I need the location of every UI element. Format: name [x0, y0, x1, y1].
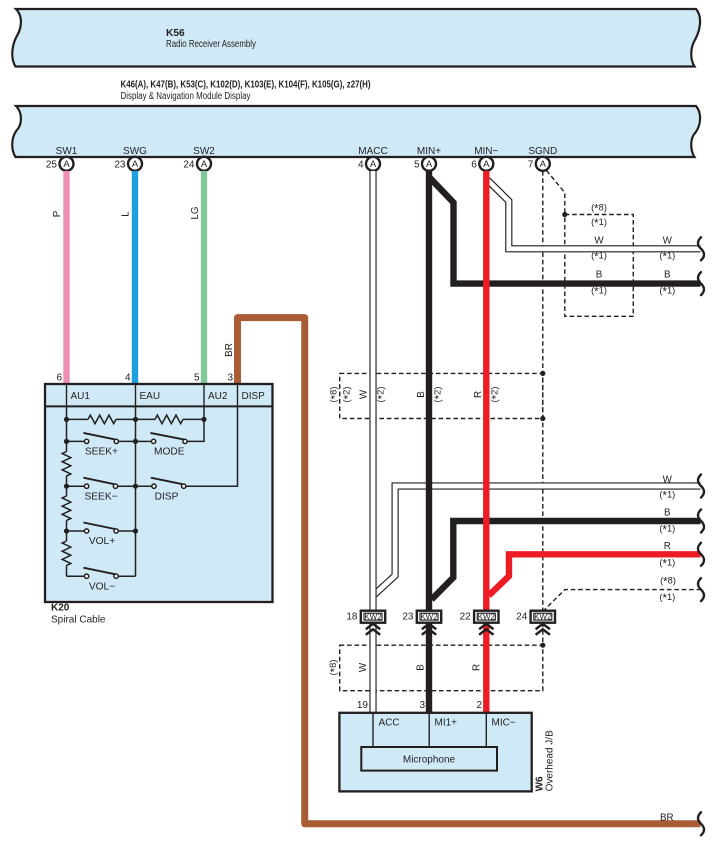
svg-text:DISP: DISP	[155, 491, 179, 502]
wire AU1 internal bus	[66, 406, 68, 576]
svg-text:(*2): (*2)	[376, 387, 389, 403]
junction AU1-SEEK+	[64, 439, 69, 444]
svg-text:24: 24	[516, 612, 528, 623]
svg-text:SEEK−: SEEK−	[84, 491, 117, 502]
svg-text:EAU: EAU	[140, 391, 161, 402]
resistor R5 on AU1 bus	[62, 541, 71, 565]
wire W from connector 18 KW2 to W6 pin 19	[369, 623, 376, 713]
switch SEEK-	[83, 478, 117, 503]
component block K46 Display & Navigation Module Display banner	[12, 106, 700, 157]
svg-text:(*2): (*2)	[490, 387, 503, 403]
page break B lower	[698, 510, 704, 533]
switch DISP	[151, 478, 186, 503]
resistor R4 on AU1 bus	[62, 496, 71, 520]
K20 header divider DISP	[237, 384, 239, 406]
svg-text:VOL−: VOL−	[89, 581, 115, 592]
svg-text:LG: LG	[190, 206, 201, 219]
svg-text:P: P	[52, 210, 63, 217]
svg-text:A: A	[201, 159, 208, 170]
svg-text:3: 3	[227, 373, 233, 384]
svg-text:AU2: AU2	[208, 391, 228, 402]
svg-text:18: 18	[346, 612, 358, 623]
svg-text:4: 4	[358, 159, 364, 170]
wire B option branch lower to right edge	[432, 521, 701, 600]
svg-text:(*1): (*1)	[659, 286, 675, 299]
resistor R2 (EAU-AU2)	[155, 415, 183, 424]
page break dashed option	[698, 578, 704, 601]
wire DISP internal line	[186, 406, 238, 486]
wire B MIN+ from pin 5 to connector 23 KW2	[426, 171, 432, 611]
switch SEEK+	[83, 433, 118, 458]
svg-text:A: A	[426, 159, 433, 170]
switch MODE	[150, 433, 187, 458]
junction dashed middle box top right	[540, 371, 545, 376]
page break W lower	[698, 475, 704, 498]
W6 divider pin 2	[485, 713, 487, 747]
svg-text:24: 24	[183, 159, 195, 170]
svg-text:7: 7	[528, 159, 534, 170]
component Microphone box	[361, 747, 497, 771]
svg-text:KW2: KW2	[364, 612, 382, 621]
junction EAU-VOL+	[133, 528, 138, 533]
svg-text:SGND: SGND	[528, 146, 557, 157]
wire dashed option branch from connector 24 KW2 to right edge	[543, 590, 701, 612]
svg-text:Spiral Cable: Spiral Cable	[51, 615, 106, 626]
pin 5 connector A (MIN+)	[414, 157, 436, 171]
junction AU1-R1	[64, 417, 69, 422]
option box (+8) lower dashed	[340, 645, 543, 691]
svg-text:Microphone: Microphone	[403, 755, 456, 766]
svg-text:BR: BR	[224, 343, 235, 357]
svg-text:(*1): (*1)	[591, 286, 607, 299]
wire DISP row	[136, 485, 152, 487]
svg-text:K20: K20	[51, 603, 70, 614]
svg-text:3: 3	[419, 700, 425, 711]
svg-text:6: 6	[471, 159, 477, 170]
K20 header divider AU2	[203, 384, 205, 406]
W6 divider pin 3	[428, 713, 430, 747]
junction AU2-R2	[201, 417, 206, 422]
wire W MACC from pin 4 to connector 18 KW2	[369, 171, 376, 611]
svg-text:MIN−: MIN−	[474, 146, 498, 157]
K20 header separator line	[45, 405, 273, 407]
junction EAU-SEEK+MODE	[133, 439, 138, 444]
wire SGND shield dashed vertical from pin 7 to connector 24 KW2	[542, 171, 544, 611]
svg-text:B: B	[596, 269, 603, 280]
pin 24 connector A (SW2)	[183, 157, 211, 171]
svg-text:23: 23	[402, 612, 414, 623]
connector 24 KW2	[516, 611, 555, 623]
pin 25 connector A (SW1)	[46, 157, 74, 171]
svg-text:(*8): (*8)	[660, 576, 676, 589]
junction dashed middle box bottom right	[540, 416, 545, 421]
wire EAU internal bus	[135, 406, 137, 576]
wire VOL- row	[67, 575, 85, 577]
svg-text:VOL+: VOL+	[89, 536, 115, 547]
svg-text:W: W	[358, 662, 369, 672]
wire W branch from pin 6 to right edge (upper)	[488, 180, 701, 249]
junction dashed box upper right corner	[562, 212, 567, 217]
page break R lower	[698, 543, 704, 566]
connector 22 KW2	[460, 611, 499, 623]
wire BR brown from K20 DISP pin 3 to right edge bottom	[238, 318, 701, 824]
svg-text:SWG: SWG	[123, 146, 147, 157]
svg-text:A: A	[63, 159, 70, 170]
svg-text:23: 23	[114, 159, 126, 170]
switch VOL+	[83, 523, 118, 548]
svg-text:A: A	[132, 159, 139, 170]
connector marker chevrons 22 KW2	[479, 624, 493, 635]
svg-text:(*1): (*1)	[591, 251, 607, 264]
resistor R3 on AU1 bus	[62, 452, 71, 476]
wire W option branch lower to right edge	[375, 486, 701, 595]
connector marker chevrons 23 KW2	[422, 624, 436, 635]
svg-text:KW2: KW2	[420, 612, 438, 621]
svg-text:AU1: AU1	[71, 391, 91, 402]
svg-text:MI1+: MI1+	[435, 718, 458, 729]
svg-text:4: 4	[125, 373, 131, 384]
connector marker chevrons 24 KW2	[536, 624, 550, 635]
svg-text:2: 2	[476, 700, 482, 711]
svg-text:KW2: KW2	[534, 612, 552, 621]
svg-text:A: A	[540, 159, 547, 170]
svg-text:(*1): (*1)	[659, 524, 675, 537]
pin 4 connector A (MACC)	[358, 157, 380, 171]
wire MODE row	[136, 440, 152, 442]
option box (+8)(+1) upper right dashed	[565, 215, 634, 317]
connector marker chevrons 18 KW2	[366, 624, 380, 635]
svg-text:(*2): (*2)	[433, 387, 446, 403]
connector 23 KW2	[402, 611, 441, 623]
svg-text:B: B	[416, 391, 427, 398]
svg-text:BR: BR	[660, 812, 674, 823]
wire R MIN- from pin 6 to connector 22 KW2	[483, 171, 489, 611]
wire resistor row left	[67, 418, 89, 420]
resistor R1 (AU1-EAU)	[88, 415, 116, 424]
svg-text:MODE: MODE	[154, 447, 185, 458]
wire R from connector 22 KW2 to W6 pin 2	[483, 623, 489, 713]
svg-text:25: 25	[46, 159, 58, 170]
wire L blue SWG from pin 23 to K20 pin 4	[132, 171, 138, 384]
svg-text:SEEK+: SEEK+	[85, 447, 118, 458]
svg-text:K46(A), K47(B), K53(C), K102(D: K46(A), K47(B), K53(C), K102(D), K103(E)…	[121, 80, 371, 91]
svg-text:SW2: SW2	[193, 146, 215, 157]
wire B branch from pin 5 to right edge (upper)	[429, 177, 701, 284]
wire dashed below connector 24 KW2	[542, 623, 544, 646]
page break W upper	[698, 237, 704, 260]
svg-text:B: B	[664, 269, 671, 280]
svg-text:MACC: MACC	[358, 146, 387, 157]
wire R option branch lower to right edge	[489, 554, 701, 595]
svg-text:R: R	[473, 391, 484, 398]
wire B from connector 23 KW2 to W6 pin 3	[426, 623, 432, 713]
junction EAU-R1R2	[133, 417, 138, 422]
K20 header divider EAU	[135, 384, 137, 406]
svg-text:R: R	[471, 664, 482, 671]
svg-text:R: R	[664, 541, 671, 552]
svg-text:W: W	[594, 235, 604, 246]
wire AU2 internal line	[187, 406, 204, 441]
option box (*2) middle dashed	[340, 373, 543, 418]
svg-text:W: W	[358, 389, 369, 399]
page break BR bottom	[698, 812, 704, 835]
svg-text:Overhead J/B: Overhead J/B	[544, 730, 555, 791]
svg-text:A: A	[370, 159, 377, 170]
junction AU1-VOL+	[64, 528, 69, 533]
svg-text:A: A	[483, 159, 490, 170]
pin 23 connector A (SWG)	[114, 157, 142, 171]
svg-text:W: W	[663, 474, 673, 485]
svg-text:Radio Receiver Assembly: Radio Receiver Assembly	[166, 39, 256, 50]
svg-text:(*1): (*1)	[659, 490, 675, 503]
connector 18 KW2	[346, 611, 385, 623]
svg-text:(*1): (*1)	[659, 558, 675, 571]
svg-text:KW2: KW2	[478, 612, 496, 621]
svg-text:Display & Navigation Module Di: Display & Navigation Module Display	[121, 91, 251, 102]
svg-text:DISP: DISP	[242, 391, 266, 402]
svg-text:(*1): (*1)	[591, 217, 607, 230]
wire resistor row mid	[116, 418, 155, 420]
K20 header divider AU1	[66, 384, 68, 406]
junction AU1-SEEK-	[64, 484, 69, 489]
svg-text:5: 5	[414, 159, 420, 170]
svg-text:K56: K56	[166, 28, 185, 39]
pin 6 connector A (MIN-)	[471, 157, 493, 171]
component W6 Overhead J/B block	[339, 713, 531, 792]
svg-text:(*1): (*1)	[659, 592, 675, 605]
svg-text:MIC−: MIC−	[492, 718, 516, 729]
svg-text:(*2): (*2)	[342, 387, 355, 403]
W6 divider pin 19	[372, 713, 374, 747]
svg-text:22: 22	[460, 612, 472, 623]
wire SEEK- row	[67, 485, 85, 487]
svg-text:(*1): (*1)	[659, 251, 675, 264]
wire VOL+ row	[67, 530, 85, 532]
component block K56 Radio Receiver Assembly banner	[12, 9, 700, 67]
component K20 Spiral Cable block	[45, 384, 273, 602]
wire resistor row right	[183, 418, 204, 420]
svg-text:SW1: SW1	[56, 146, 78, 157]
svg-text:B: B	[664, 507, 671, 518]
pin 7 connector A (SGND)	[528, 157, 550, 171]
svg-text:B: B	[415, 664, 426, 671]
wire LG green SW2 from pin 24 to K20 pin 5	[201, 171, 207, 384]
svg-text:ACC: ACC	[379, 718, 400, 729]
junction dashed lower box top right	[540, 643, 545, 648]
svg-text:MIN+: MIN+	[417, 146, 441, 157]
svg-text:6: 6	[56, 373, 62, 384]
svg-text:(*8): (*8)	[591, 203, 607, 216]
svg-text:5: 5	[194, 373, 200, 384]
junction EAU-SEEK-DISP	[133, 484, 138, 489]
switch VOL-	[83, 568, 118, 593]
svg-text:19: 19	[357, 700, 369, 711]
page break B upper	[698, 272, 704, 295]
wire SGND dashed branch diagonal to option box	[547, 171, 565, 215]
wire P pink SW1 from pin 25 to K20 pin 6	[63, 171, 69, 384]
svg-text:L: L	[121, 211, 132, 217]
wire SEEK+ row	[67, 440, 85, 442]
svg-text:W: W	[663, 235, 673, 246]
